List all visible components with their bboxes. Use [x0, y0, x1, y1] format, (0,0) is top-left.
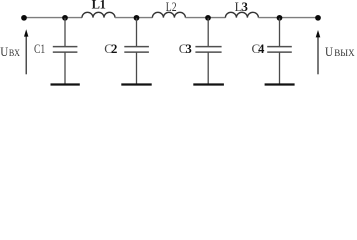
- capacitor C3: [195, 18, 221, 84]
- svg-text:4: 4: [258, 42, 265, 56]
- node 3 junction dot: [205, 15, 211, 21]
- wire between L2 and L3: [185, 17, 225, 19]
- svg-text:U: U: [0, 45, 8, 59]
- node output terminal dot: [315, 15, 321, 21]
- ground bar under C3: [193, 83, 224, 85]
- svg-text:1: 1: [100, 0, 106, 11]
- ground bar under C4: [265, 83, 295, 85]
- ground bar under C2: [121, 83, 151, 85]
- inductor L2: [152, 12, 185, 17]
- svg-text:ВЫХ: ВЫХ: [334, 48, 355, 58]
- node input terminal dot: [21, 15, 27, 21]
- svg-text:3: 3: [186, 42, 192, 56]
- svg-text:2: 2: [111, 42, 117, 56]
- node 4 junction dot: [277, 15, 283, 21]
- wire right segment: [258, 17, 318, 19]
- inductor L1: [82, 12, 115, 17]
- node 1 junction dot: [62, 15, 68, 21]
- svg-text:C1: C1: [34, 41, 45, 56]
- wire between L1 and L2: [115, 17, 152, 19]
- inductor L3: [225, 12, 258, 17]
- ground bar under C1: [51, 83, 80, 85]
- capacitor C1: [53, 18, 78, 84]
- node 2 junction dot: [134, 15, 140, 21]
- capacitor C2: [124, 18, 149, 84]
- input arrow (up): [24, 29, 28, 74]
- svg-text:3: 3: [242, 0, 248, 14]
- wire top rail left segment: [24, 17, 82, 19]
- svg-text:L2: L2: [166, 0, 177, 14]
- svg-text:ВХ: ВХ: [9, 48, 20, 58]
- svg-text:U: U: [325, 45, 333, 59]
- output arrow (up): [316, 30, 321, 74]
- capacitor C4: [267, 18, 292, 84]
